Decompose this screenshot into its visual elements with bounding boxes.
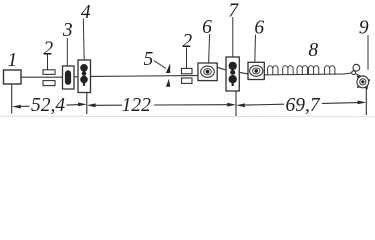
svg-text:69,7: 69,7 <box>285 95 320 116</box>
svg-text:2: 2 <box>182 31 192 52</box>
svg-text:4: 4 <box>81 2 91 23</box>
svg-text:2: 2 <box>43 39 53 60</box>
svg-text:1: 1 <box>8 50 18 71</box>
svg-text:6: 6 <box>202 17 212 38</box>
svg-text:122: 122 <box>122 95 152 116</box>
svg-text:52,4: 52,4 <box>31 95 65 116</box>
svg-text:7: 7 <box>228 0 239 21</box>
svg-text:3: 3 <box>62 20 73 41</box>
svg-text:6: 6 <box>254 17 264 38</box>
svg-text:8: 8 <box>308 40 318 61</box>
svg-text:9: 9 <box>359 18 369 39</box>
svg-text:5: 5 <box>144 49 154 70</box>
